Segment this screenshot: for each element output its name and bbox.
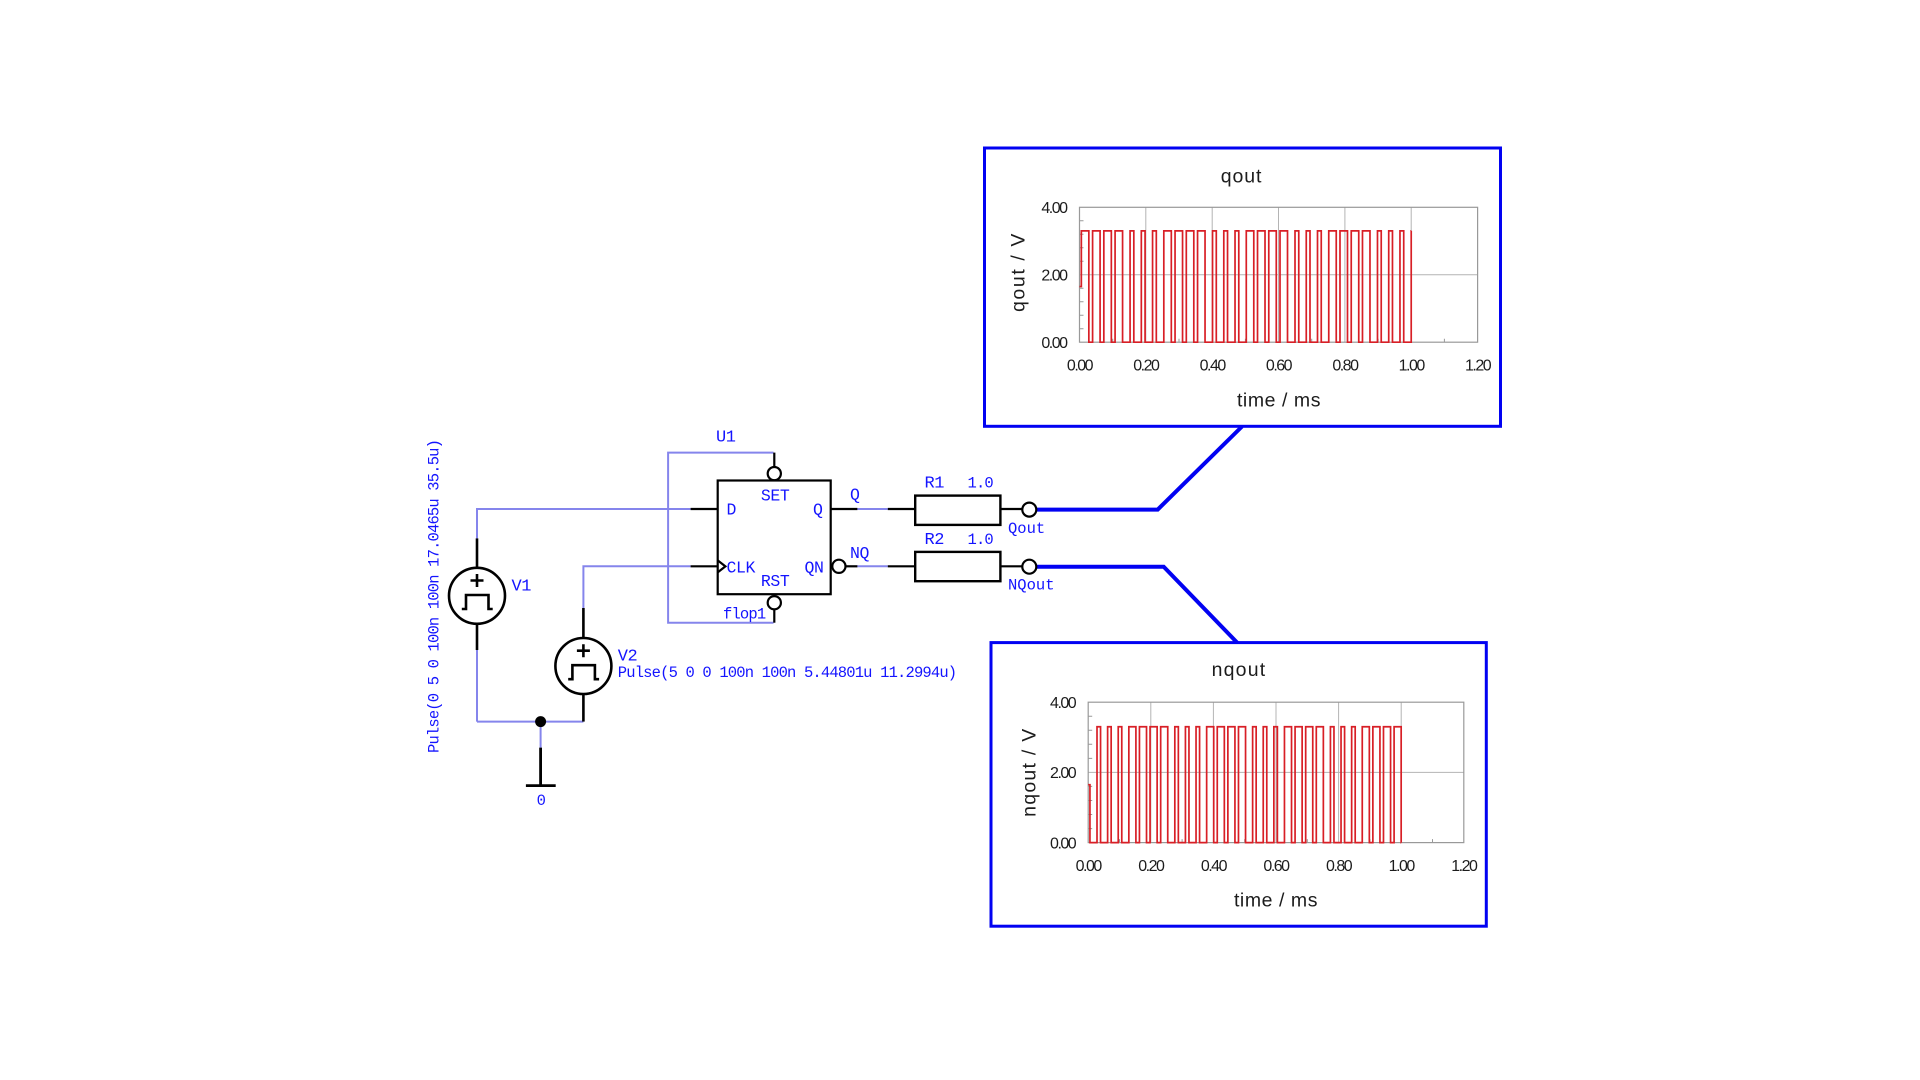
svg-text:QN: QN (804, 558, 823, 577)
svg-text:2.00: 2.00 (1041, 267, 1068, 284)
voltage source V1 (449, 538, 505, 650)
svg-text:1.00: 1.00 (1399, 358, 1426, 375)
svg-text:0.80: 0.80 (1332, 358, 1359, 375)
svg-text:0.60: 0.60 (1263, 858, 1290, 875)
junction dot (535, 716, 546, 727)
resistor R2 (888, 552, 1023, 581)
svg-text:qout / V: qout / V (1008, 232, 1030, 312)
svg-text:0.00: 0.00 (1067, 358, 1094, 375)
wire net from V1 to D and bottom rail (477, 509, 691, 748)
svg-text:NQout: NQout (1008, 577, 1055, 595)
svg-text:0.20: 0.20 (1138, 858, 1165, 875)
svg-text:time / ms: time / ms (1237, 390, 1321, 412)
svg-text:0.80: 0.80 (1326, 858, 1353, 875)
wire Q segment (857, 508, 887, 510)
svg-text:0.20: 0.20 (1133, 358, 1160, 375)
svg-text:0.60: 0.60 (1266, 358, 1293, 375)
svg-text:nqout: nqout (1212, 659, 1267, 681)
plot frame qout (1080, 207, 1478, 342)
flip-flop U1 (691, 453, 858, 623)
svg-text:V1: V1 (512, 578, 532, 597)
svg-text:0: 0 (537, 792, 546, 810)
svg-text:time / ms: time / ms (1234, 890, 1318, 912)
svg-text:1.00: 1.00 (1389, 858, 1416, 875)
plot box qout (985, 148, 1501, 426)
svg-text:1.20: 1.20 (1465, 358, 1492, 375)
svg-text:R2: R2 (925, 531, 944, 550)
svg-text:RST: RST (761, 572, 790, 591)
thick link wire to qout plot (1036, 427, 1242, 510)
thick link wire to nqout plot (1036, 567, 1238, 644)
svg-text:qout: qout (1221, 166, 1263, 188)
resistor R1 (888, 496, 1022, 525)
svg-text:R1: R1 (925, 474, 945, 493)
svg-text:0.00: 0.00 (1050, 835, 1077, 852)
wire net from V2 to CLK (583, 566, 690, 608)
svg-text:D: D (727, 501, 737, 520)
svg-text:SET: SET (761, 486, 790, 505)
plot grid nqout (1088, 702, 1464, 842)
svg-text:Q: Q (850, 485, 860, 504)
wire NQ segment (857, 565, 887, 567)
svg-text:4.00: 4.00 (1050, 695, 1077, 712)
plot box nqout (991, 643, 1486, 927)
svg-text:0.00: 0.00 (1041, 335, 1068, 352)
svg-text:1.0: 1.0 (968, 531, 994, 549)
svg-text:CLK: CLK (727, 558, 756, 577)
svg-text:Q: Q (813, 501, 823, 520)
svg-text:Pulse(5 0 0 100n 100n 5.44801u: Pulse(5 0 0 100n 100n 5.44801u 11.2994u) (618, 664, 956, 682)
svg-text:1.0: 1.0 (968, 474, 994, 492)
svg-text:nqout / V: nqout / V (1019, 728, 1041, 817)
svg-text:Pulse(0 5 0 100n 100n 17.0465u: Pulse(0 5 0 100n 100n 17.0465u 35.5u) (426, 440, 444, 753)
waveform trace nqout (1088, 727, 1401, 843)
waveform trace qout (1080, 231, 1412, 342)
voltage source V2 (555, 608, 611, 722)
svg-text:0.40: 0.40 (1201, 858, 1228, 875)
svg-text:flop1: flop1 (723, 606, 766, 624)
svg-text:1.20: 1.20 (1451, 858, 1478, 875)
node Qout (1022, 503, 1036, 517)
wire SET-RST loop (668, 453, 773, 623)
svg-text:Qout: Qout (1008, 520, 1045, 538)
svg-text:2.00: 2.00 (1050, 765, 1077, 782)
svg-text:0.40: 0.40 (1200, 358, 1227, 375)
plot frame nqout (1088, 702, 1464, 842)
svg-text:NQ: NQ (850, 544, 870, 563)
node NQout (1022, 560, 1036, 574)
svg-text:0.00: 0.00 (1076, 858, 1103, 875)
svg-text:4.00: 4.00 (1041, 200, 1068, 217)
ground (526, 748, 556, 786)
plot grid qout (1080, 207, 1478, 342)
svg-text:U1: U1 (716, 428, 736, 447)
